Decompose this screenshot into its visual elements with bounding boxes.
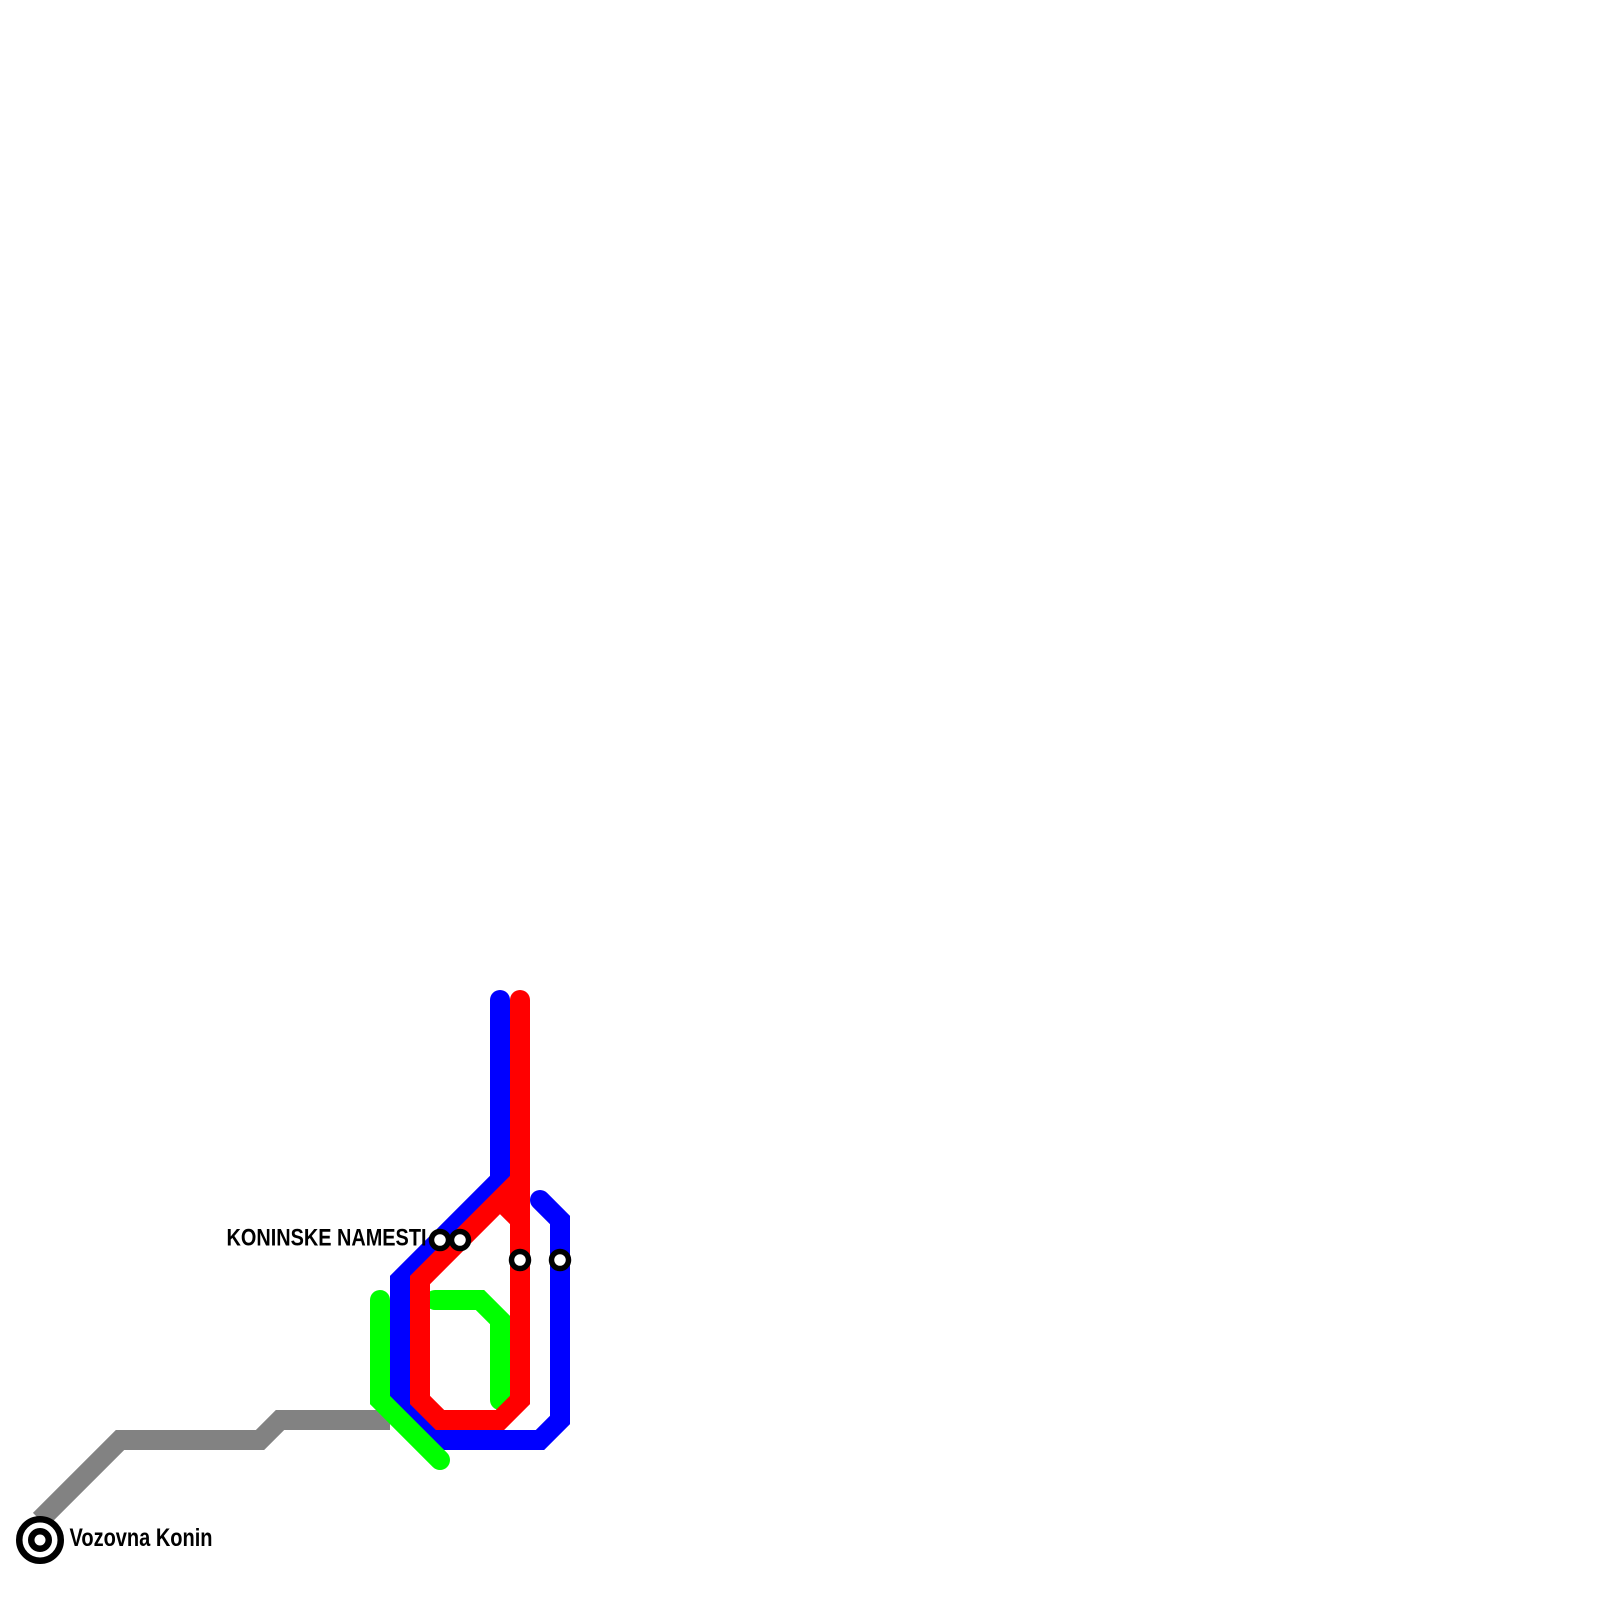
station Koninske Namesti (red) [452,1232,469,1249]
terminal symbol Vozovna Konin [19,1519,61,1561]
blue line [400,1000,560,1440]
green line inner segment [435,1300,500,1400]
green line outer segment [380,1300,440,1460]
station on blue vertical [552,1252,569,1269]
gray depot line to Vozovna Konin [40,1420,390,1520]
station Koninske Namesti (blue) [432,1232,449,1249]
red junction connector [505,1205,520,1220]
red line loop [420,1000,520,1420]
station on red vertical [512,1252,529,1269]
svg-text:KONINSKE NAMESTI: KONINSKE NAMESTI [227,1225,427,1252]
svg-text:Vozovna Konin: Vozovna Konin [70,1525,213,1552]
